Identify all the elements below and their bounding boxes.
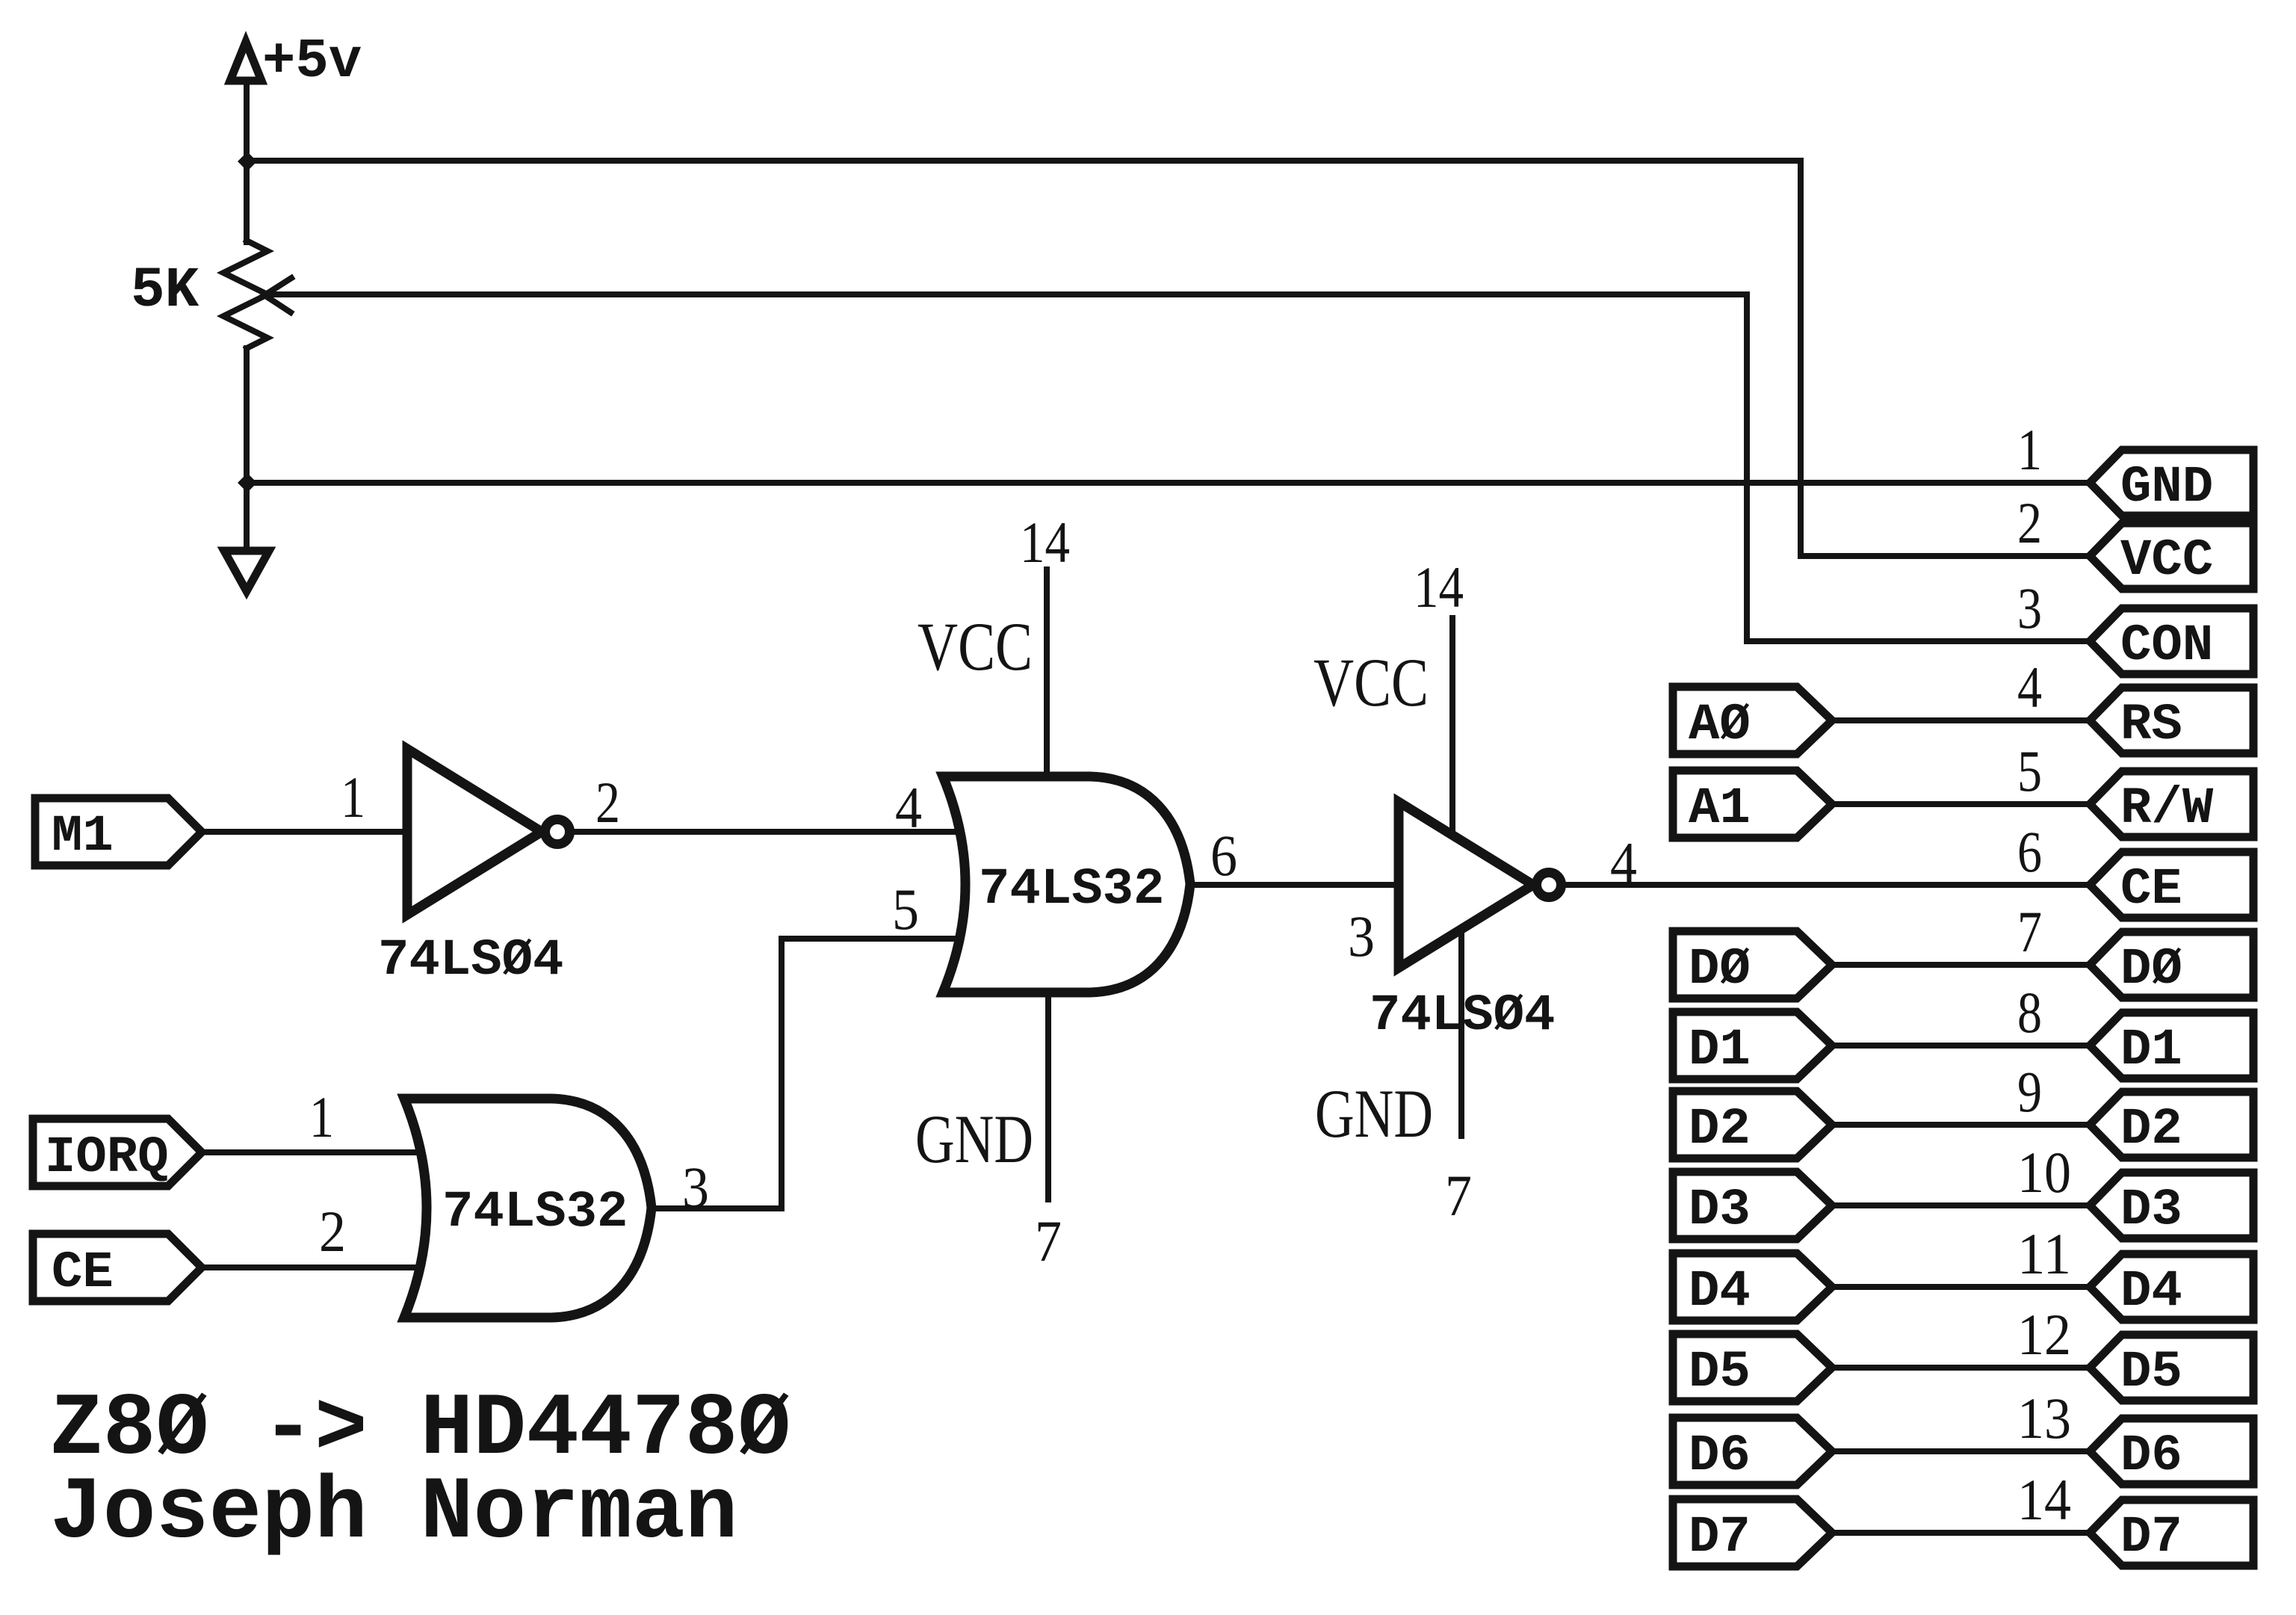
svg-text:3: 3 xyxy=(2017,575,2042,640)
wire D2 to connector xyxy=(1832,1122,2091,1128)
connector tag D4 xyxy=(2090,1254,2253,1321)
svg-text:D7: D7 xyxy=(2120,1508,2182,1566)
pin 14 VCC stub of U2B xyxy=(1044,569,1050,777)
wire CE to U2A pin 2 xyxy=(202,1264,423,1270)
svg-text:11: 11 xyxy=(2017,1221,2071,1286)
connector tag D7 xyxy=(2090,1500,2253,1566)
tag D2 left xyxy=(1673,1091,1832,1158)
connector tag D6 xyxy=(2090,1418,2253,1485)
tag D1 left xyxy=(1673,1012,1832,1079)
tag A0 xyxy=(1673,687,1832,754)
svg-text:D4: D4 xyxy=(2120,1262,2182,1321)
svg-text:CON: CON xyxy=(2120,617,2213,675)
svg-text:AØ: AØ xyxy=(1689,696,1751,754)
wire resistor bottom to ground node xyxy=(244,348,250,548)
tag IORQ xyxy=(33,1119,202,1187)
svg-text:Joseph Norman: Joseph Norman xyxy=(50,1464,738,1563)
connector tag GND xyxy=(2090,450,2253,516)
node junction bottom xyxy=(238,473,257,492)
wire M1 to inverter U1A input xyxy=(202,829,407,835)
inverter U1A 74LS04 xyxy=(407,749,570,915)
svg-text:2: 2 xyxy=(2017,490,2042,555)
svg-text:D3: D3 xyxy=(1689,1181,1751,1239)
pin 14 VCC stub of U1B xyxy=(1449,618,1455,836)
svg-text:74LS32: 74LS32 xyxy=(979,860,1164,918)
svg-text:D4: D4 xyxy=(1689,1262,1751,1321)
node junction top xyxy=(238,152,257,171)
connector tag R/W xyxy=(2090,771,2253,838)
svg-text:D3: D3 xyxy=(2120,1181,2182,1239)
svg-text:CE: CE xyxy=(52,1244,114,1302)
svg-text:D1: D1 xyxy=(1689,1021,1751,1079)
svg-text:D2: D2 xyxy=(2120,1100,2182,1158)
svg-text:6: 6 xyxy=(2017,819,2042,884)
svg-text:VCC: VCC xyxy=(918,608,1033,685)
svg-text:D5: D5 xyxy=(1689,1343,1751,1401)
connector tag D3 xyxy=(2090,1173,2253,1239)
tag D7 left xyxy=(1673,1499,1832,1566)
tag D5 left xyxy=(1673,1334,1832,1401)
wire IORQ to U2A pin 1 xyxy=(202,1149,423,1155)
wire VCC rail top horizontal xyxy=(247,161,2091,556)
connector tag D5 xyxy=(2090,1335,2253,1401)
svg-text:GND: GND xyxy=(1315,1075,1433,1152)
wire U2B output to U1B input xyxy=(1190,882,1399,888)
wire D6 to connector xyxy=(1832,1448,2091,1454)
ground symbol xyxy=(224,551,269,591)
wire A0 to RS xyxy=(1832,717,2091,723)
svg-text:1: 1 xyxy=(309,1084,334,1149)
tag A1 xyxy=(1673,771,1832,838)
svg-text:3: 3 xyxy=(1348,904,1375,969)
svg-text:D1: D1 xyxy=(2120,1021,2182,1079)
svg-text:7: 7 xyxy=(1035,1208,1062,1273)
svg-text:1: 1 xyxy=(341,765,365,830)
pin 7 GND stub of U2B xyxy=(1045,992,1051,1199)
inverter U1B 74LS04 xyxy=(1399,802,1562,968)
wire U1B output to CE tag xyxy=(1563,882,2091,888)
svg-text:CE: CE xyxy=(2120,860,2182,918)
svg-text:GND: GND xyxy=(2120,458,2213,516)
svg-text:IORQ: IORQ xyxy=(45,1128,169,1187)
svg-text:5K: 5K xyxy=(131,259,199,323)
svg-text:5: 5 xyxy=(892,877,919,942)
tag M1 xyxy=(35,798,202,865)
wire A1 to R/W xyxy=(1832,801,2091,807)
svg-text:12: 12 xyxy=(2017,1302,2071,1367)
svg-text:14: 14 xyxy=(1020,510,1070,575)
svg-text:R/W: R/W xyxy=(2120,779,2214,838)
wire D7 to connector xyxy=(1832,1530,2091,1536)
OR gate U2B 74LS32 xyxy=(943,776,1190,992)
wiper arrow of potentiometer xyxy=(264,278,2091,641)
wire D0 to connector xyxy=(1832,962,2091,968)
wire U1A output to U2B pin 4 xyxy=(572,829,961,835)
svg-text:14: 14 xyxy=(1414,555,1464,620)
wire D3 to connector xyxy=(1832,1202,2091,1208)
svg-text:5: 5 xyxy=(2017,738,2042,803)
wire D1 to connector xyxy=(1832,1043,2091,1049)
svg-text:A1: A1 xyxy=(1689,779,1751,838)
svg-text:4: 4 xyxy=(2017,655,2042,720)
svg-text:DØ: DØ xyxy=(1689,940,1751,998)
resistor R1 5K potentiometer zigzag xyxy=(223,241,267,348)
svg-text:VCC: VCC xyxy=(2120,531,2213,590)
svg-text:1: 1 xyxy=(2017,417,2042,482)
svg-text:9: 9 xyxy=(2017,1059,2042,1124)
connector tag RS xyxy=(2090,688,2253,754)
svg-text:14: 14 xyxy=(2017,1467,2071,1532)
connector tag D0 xyxy=(2090,932,2253,998)
svg-text:D7: D7 xyxy=(1689,1508,1751,1566)
power +5v symbol xyxy=(230,31,362,93)
wire U2A output to U2B pin 5 xyxy=(652,939,961,1208)
svg-text:RS: RS xyxy=(2120,696,2182,754)
wire GND rail horizontal xyxy=(247,480,2091,486)
connector tag D1 xyxy=(2090,1013,2253,1079)
svg-text:D6: D6 xyxy=(2120,1427,2182,1485)
svg-text:D5: D5 xyxy=(2120,1343,2182,1401)
tag D4 left xyxy=(1673,1253,1832,1321)
connector tag CON xyxy=(2090,608,2253,675)
pin 7 GND stub of U1B xyxy=(1458,930,1464,1136)
svg-text:8: 8 xyxy=(2017,980,2042,1045)
svg-text:2: 2 xyxy=(319,1199,346,1264)
svg-text:DØ: DØ xyxy=(2120,940,2182,998)
svg-text:+5v: +5v xyxy=(262,31,362,93)
svg-text:GND: GND xyxy=(915,1101,1033,1177)
svg-text:M1: M1 xyxy=(52,807,114,865)
svg-text:D6: D6 xyxy=(1689,1427,1751,1485)
svg-text:7: 7 xyxy=(2017,899,2042,964)
svg-text:74LSØ4: 74LSØ4 xyxy=(378,931,563,989)
svg-text:2: 2 xyxy=(595,770,620,835)
wire +5v to resistor top xyxy=(244,82,250,242)
svg-text:74LS32: 74LS32 xyxy=(442,1183,628,1241)
svg-text:6: 6 xyxy=(1210,823,1237,888)
svg-text:10: 10 xyxy=(2017,1140,2071,1205)
svg-text:13: 13 xyxy=(2017,1386,2071,1451)
svg-text:VCC: VCC xyxy=(1313,644,1429,720)
tag CE input xyxy=(33,1234,202,1302)
tag D0 left xyxy=(1673,931,1832,998)
tag D3 left xyxy=(1673,1172,1832,1239)
connector tag VCC xyxy=(2090,523,2253,590)
wire D5 to connector xyxy=(1832,1365,2091,1371)
svg-text:4: 4 xyxy=(895,775,922,840)
wire D4 to connector xyxy=(1832,1284,2091,1290)
connector tag CE xyxy=(2090,852,2253,918)
tag D6 left xyxy=(1673,1418,1832,1485)
svg-text:D2: D2 xyxy=(1689,1100,1751,1158)
OR gate U2A 74LS32 xyxy=(404,1099,652,1318)
connector tag D2 xyxy=(2090,1092,2253,1158)
svg-text:7: 7 xyxy=(1445,1163,1472,1228)
